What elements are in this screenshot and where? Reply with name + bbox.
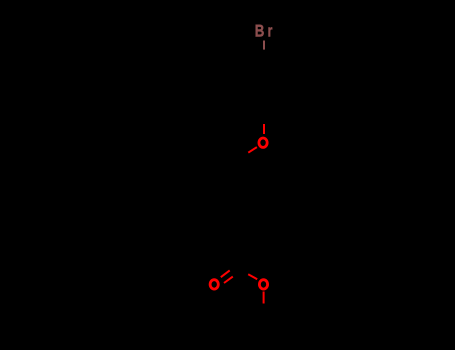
atom O (carbonyl) xyxy=(210,280,218,289)
bond O-CH2 ethyl (O half, red) xyxy=(263,292,265,304)
bond Br-C1 (carbon half, black) xyxy=(263,50,265,59)
bond C-O ester (O half, red) xyxy=(248,274,257,279)
bond O-CH2 (carbon half, black) xyxy=(240,153,249,159)
atom O (ether) xyxy=(259,138,267,147)
bond C4-O ether (carbon half, black) xyxy=(263,113,265,125)
bond CH2-CH3 ethyl (black) xyxy=(245,315,264,330)
svg-text:B: B xyxy=(255,22,265,41)
svg-text:r: r xyxy=(268,22,273,41)
atom O (ester) xyxy=(259,280,267,289)
bond O-CH2 (O half, red) xyxy=(248,147,257,153)
carbonyl C=O double bond lower line (carbon half, black) xyxy=(233,270,242,276)
benzene ring (black bonds, invisible on black background) xyxy=(241,59,287,113)
bond O-CH2 ethyl (carbon half, black) xyxy=(263,304,265,316)
bond C4-O ether (O half, red) xyxy=(263,124,265,134)
bond Br-C1 (Br half, maroon) xyxy=(263,41,265,50)
carbonyl C=O double bond upper line (O half, red) xyxy=(221,270,230,277)
bond C-O ester (carbon half, black) xyxy=(242,262,248,274)
carbonyl C=O double bond lower line (O half, red) xyxy=(224,277,233,283)
alkyl chain (black, invisible) xyxy=(233,158,250,262)
carbonyl C=O double bond upper line (carbon half, black) xyxy=(230,264,239,271)
